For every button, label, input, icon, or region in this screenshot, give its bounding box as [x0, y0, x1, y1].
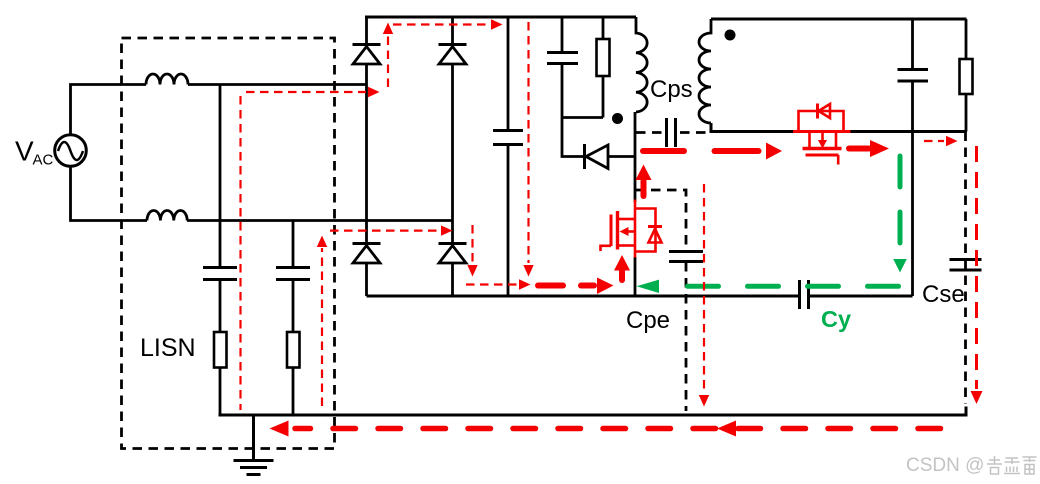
wire [71, 85, 147, 136]
red path wire [393, 23, 489, 25]
ground rail [219, 407, 967, 416]
capacitor Cps [667, 118, 676, 147]
ground return noise path [295, 426, 941, 432]
AC source VAC [55, 135, 87, 167]
svg-text:Cse: Cse [922, 281, 965, 308]
red arrow right [491, 19, 503, 29]
red path wire [471, 225, 473, 263]
red arrow right [519, 279, 531, 289]
LISN box [122, 38, 335, 449]
red path wire [924, 140, 944, 142]
wire secondary ground [809, 295, 913, 298]
capacitor C_out [898, 19, 929, 132]
ground [234, 415, 274, 475]
capacitor Cpe [669, 252, 703, 262]
MOSFET Q1 primary switch [601, 200, 663, 258]
wire [680, 131, 711, 134]
wire [292, 280, 295, 332]
red path wire [246, 91, 366, 93]
resistor LISN R2 [287, 332, 300, 368]
transformer primary phase dot [612, 113, 623, 124]
red path wire [527, 22, 529, 263]
wire [292, 221, 295, 267]
svg-text:CSDN @: CSDN @ [906, 455, 984, 476]
wire [219, 368, 222, 416]
green path vertical [898, 156, 903, 250]
noise path segment [581, 283, 594, 289]
ground return arrow left mid [717, 421, 736, 437]
wire [219, 85, 222, 267]
transformer secondary winding [699, 19, 711, 123]
wire [451, 221, 454, 243]
red arrow right [946, 136, 958, 146]
red path wire [466, 283, 517, 285]
wire drain node [634, 112, 637, 202]
wire source node [634, 257, 637, 296]
bridge top rail [365, 16, 636, 19]
red arrow down [971, 391, 983, 404]
watermark glyphs [987, 456, 1037, 474]
red arrow right [441, 225, 453, 235]
wire [911, 132, 914, 297]
red path wire [239, 96, 241, 410]
wire [71, 166, 148, 221]
capacitor C_snubber [547, 17, 578, 118]
red arrow down [699, 395, 709, 407]
wire Cps dashed [636, 131, 662, 134]
capacitor LISN C1 [203, 268, 237, 280]
red path wire [387, 34, 389, 87]
noise path arrow right [597, 278, 614, 295]
secondary top rail [711, 18, 967, 21]
red arrow down [467, 265, 477, 277]
wire [219, 280, 222, 332]
noise path arrow right [870, 140, 889, 157]
green arrow down [893, 259, 907, 273]
resistor LISN R1 [214, 332, 227, 368]
wire [685, 262, 688, 411]
red arrow up [383, 23, 393, 35]
svg-text:LISN: LISN [140, 334, 196, 362]
resistor R_load [960, 19, 973, 132]
transformer primary winding [636, 17, 647, 112]
red arrow up [317, 236, 327, 248]
diode D1 [353, 17, 381, 85]
diode D4 [439, 244, 467, 297]
noise path arrow up at source [614, 255, 630, 280]
red path wire [330, 230, 439, 232]
inductor L1 [146, 74, 188, 85]
noise path arrow up at drain [636, 165, 652, 197]
wire [850, 130, 967, 133]
capacitor C_bulk [493, 17, 523, 296]
wire [711, 123, 794, 132]
wire Cse dashed [964, 132, 967, 405]
ground return arrow left [270, 421, 289, 437]
diode D2 [439, 17, 467, 221]
noise path segment [643, 148, 684, 154]
svg-text:AC: AC [33, 152, 54, 169]
diode D5 snubber [562, 118, 635, 170]
green path horizontal [665, 284, 899, 289]
svg-text:Cpe: Cpe [626, 307, 670, 334]
noise path segment [538, 283, 563, 289]
label VAC [15, 136, 54, 169]
red path wire [703, 184, 705, 393]
wire [188, 83, 367, 86]
noise path segment [849, 146, 869, 152]
wire [292, 368, 295, 416]
wire [187, 219, 453, 222]
bridge bottom rail / primary ground [367, 295, 800, 298]
transformer secondary phase dot [725, 30, 736, 41]
wire [562, 116, 603, 119]
red arrow right [368, 87, 380, 97]
red path wire [321, 248, 323, 406]
capacitor Cy [800, 280, 809, 309]
inductor L2 [147, 211, 187, 221]
svg-text:V: V [15, 136, 34, 167]
wire Cpe dashed [635, 190, 686, 250]
red arrow down [523, 265, 533, 277]
wire [365, 85, 368, 243]
diode D3 [353, 244, 381, 297]
capacitor Cse [950, 260, 982, 271]
svg-text:Cps: Cps [650, 76, 693, 103]
capacitor LISN C2 [276, 268, 310, 280]
MOSFET Q2 secondary rectifier [793, 104, 851, 165]
red path wire Cse [975, 146, 978, 389]
resistor R_snubber [597, 17, 610, 118]
noise path segment [715, 148, 759, 154]
noise path arrow right [766, 143, 782, 160]
svg-text:Cy: Cy [821, 306, 851, 332]
green arrow left [637, 280, 660, 293]
